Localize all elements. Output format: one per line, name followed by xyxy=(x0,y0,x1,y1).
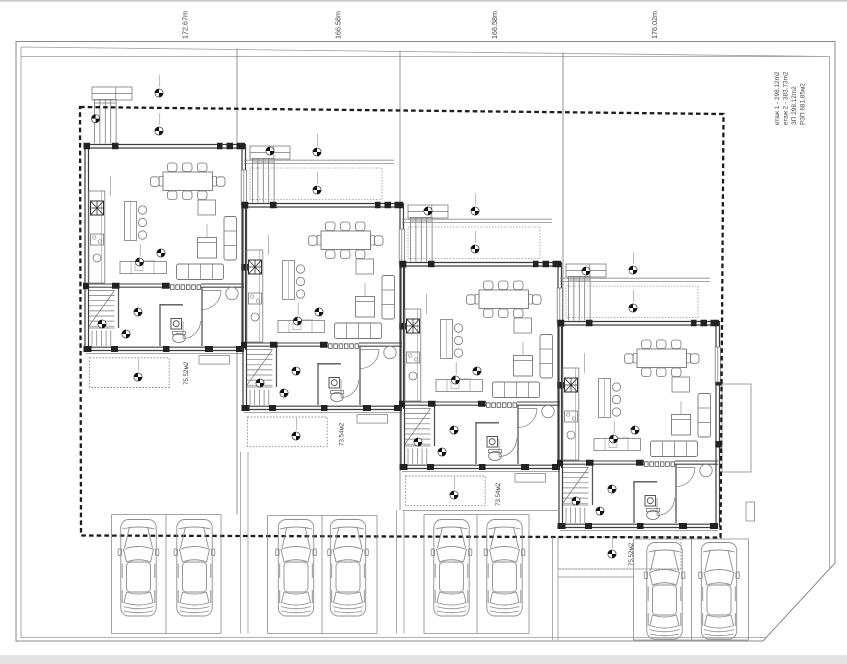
terrace lines over unit 2 xyxy=(244,160,394,163)
svg-text:75.52м2: 75.52м2 xyxy=(183,361,190,385)
dotted roof rect over unit 3 xyxy=(408,227,540,259)
svg-text:73.54м2: 73.54м2 xyxy=(495,482,502,506)
svg-text:етаж 1 - 298.12m2: етаж 1 - 298.12m2 xyxy=(774,71,781,125)
unit 1 house plan xyxy=(83,75,248,381)
lot 2/3 walk strip xyxy=(397,510,405,634)
car 4 xyxy=(328,520,369,617)
terrace dotted unit 1 xyxy=(90,358,170,388)
lot 4 terrace dotted line xyxy=(558,568,681,570)
svg-text:75.52м2: 75.52м2 xyxy=(628,542,635,566)
terrace lines over unit 4 xyxy=(560,278,710,281)
dotted roof rect over unit 4 xyxy=(566,286,698,318)
car 6 xyxy=(484,520,525,617)
svg-text:166.58m: 166.58m xyxy=(490,11,499,39)
bottom scan bar xyxy=(0,655,847,664)
car 2 xyxy=(174,520,215,617)
lot line 2 xyxy=(399,51,401,511)
parking lot 2 stalls xyxy=(268,516,378,634)
parking lot 4 stalls xyxy=(558,539,749,640)
car 1 xyxy=(118,520,159,617)
dashed setback boundary xyxy=(80,107,724,538)
extra elevation markers xyxy=(92,115,100,123)
car 7 xyxy=(644,543,685,640)
lot line 3 xyxy=(562,53,564,322)
svg-text:166.58m: 166.58m xyxy=(334,11,343,39)
car 5 xyxy=(431,520,472,617)
lot line 1 xyxy=(236,49,238,515)
svg-text:РЗП 681.85м2: РЗП 681.85м2 xyxy=(800,83,807,125)
car 8 xyxy=(699,543,740,640)
terrace dotted unit 3 xyxy=(406,476,486,506)
svg-text:етаж 2 - 383.73m2: етаж 2 - 383.73m2 xyxy=(783,71,790,125)
car 3 xyxy=(276,520,317,617)
svg-text:172.67m: 172.67m xyxy=(181,11,190,39)
dotted roof rect over unit 2 xyxy=(250,168,382,200)
unit 3 house plan xyxy=(399,193,564,499)
svg-text:ЗП 298.12m2: ЗП 298.12m2 xyxy=(791,86,798,125)
unit 4 side step xyxy=(746,502,755,521)
scan edge top xyxy=(0,0,847,2)
svg-text:176.02m: 176.02m xyxy=(650,11,659,39)
unit 4 house plan xyxy=(557,252,722,558)
lot 3/4 walk strip xyxy=(553,537,559,640)
terrace dotted unit 4 xyxy=(558,537,681,569)
parking lot 3 stalls xyxy=(403,511,560,634)
svg-text:73.54м2: 73.54м2 xyxy=(339,422,346,446)
terrace step rects xyxy=(199,356,230,365)
parking lot 1 stalls xyxy=(112,515,222,634)
lot 1/2 walk strip xyxy=(241,452,249,634)
terrace lines over unit 3 xyxy=(402,219,552,222)
unit 4 side terrace xyxy=(722,384,751,472)
unit 2 house plan xyxy=(241,134,406,440)
terrace dotted unit 2 xyxy=(248,417,328,447)
